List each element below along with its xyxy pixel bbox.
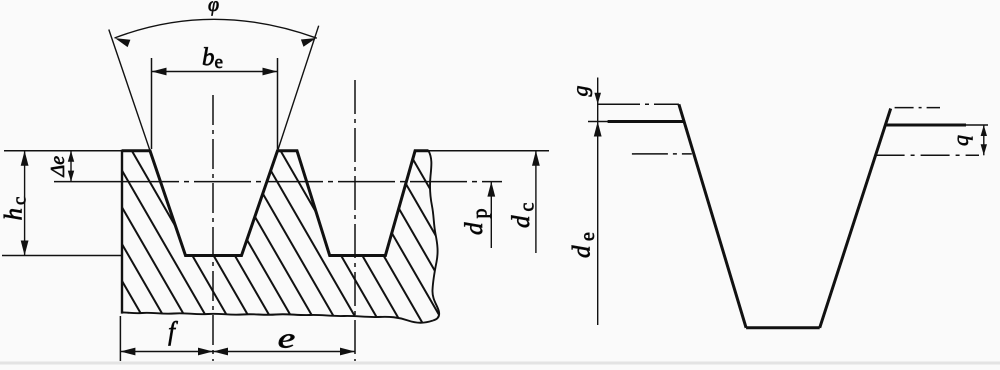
outer reference line dash-dot (right) bbox=[895, 107, 940, 109]
groove 2 centerline (dash-dot) bbox=[354, 80, 356, 361]
right figure: groove top edge (right) bbox=[885, 124, 966, 127]
dimension d_p (pitch diameter) arrow bbox=[490, 182, 492, 248]
svg-text:Δe: Δe bbox=[47, 156, 69, 178]
groove flank extension line (left slant) bbox=[109, 30, 150, 151]
pitch line segment dash-dot (left) bbox=[632, 153, 692, 155]
dimension b_e line with arrows bbox=[152, 71, 278, 73]
top surface extension line (right) bbox=[429, 150, 550, 152]
svg-text:g: g bbox=[568, 86, 593, 97]
pitch line segment dash-dot (right) bbox=[876, 154, 979, 156]
right figure: groove top edge (left) bbox=[588, 121, 684, 123]
dimension d_c (outer diameter) arrow bbox=[535, 151, 537, 253]
dimension delta-e (pitch line offset) bbox=[70, 151, 72, 182]
pitch line (dash-dot across grooves) bbox=[122, 181, 502, 183]
groove angle phi arc with arrows bbox=[115, 19, 317, 38]
pitch line extension (left) bbox=[54, 181, 122, 183]
dimension q vertical line with arrows bbox=[983, 125, 985, 155]
groove flank extension line (right slant) bbox=[278, 26, 319, 151]
pulley groove profile outline (teeth and grooves) bbox=[122, 151, 429, 256]
top surface extension line (left) bbox=[4, 150, 122, 152]
outer reference line dash-dot (left) bbox=[598, 103, 679, 105]
svg-text:φ: φ bbox=[208, 0, 219, 16]
dimension b_e groove top width: extension lines bbox=[151, 58, 153, 149]
right break line (wavy) bbox=[429, 151, 440, 321]
dimension h_c (groove depth) bbox=[24, 151, 26, 256]
svg-text:e: e bbox=[278, 324, 295, 354]
right figure: right flank bbox=[820, 109, 891, 328]
dimension line f-e bbox=[120, 351, 355, 353]
body left break edge bbox=[121, 150, 123, 314]
svg-text:q: q bbox=[948, 135, 973, 146]
dimension f and e: extension line at body left edge bbox=[119, 316, 121, 361]
right figure: left flank bbox=[679, 104, 746, 327]
bottom break line (wavy) bbox=[122, 312, 433, 322]
right figure: groove bottom bbox=[746, 326, 820, 329]
groove 1 centerline (dash-dot) bbox=[212, 95, 214, 361]
hatched pulley cross-section body (hatch fill) bbox=[122, 151, 439, 323]
dimension d_e vertical line with up arrow bbox=[597, 122, 599, 326]
groove bottom extension line (left) bbox=[2, 255, 122, 257]
dimension g vertical line with down arrow bbox=[597, 78, 599, 122]
scan artifact: faint page line at bottom bbox=[0, 362, 1000, 365]
